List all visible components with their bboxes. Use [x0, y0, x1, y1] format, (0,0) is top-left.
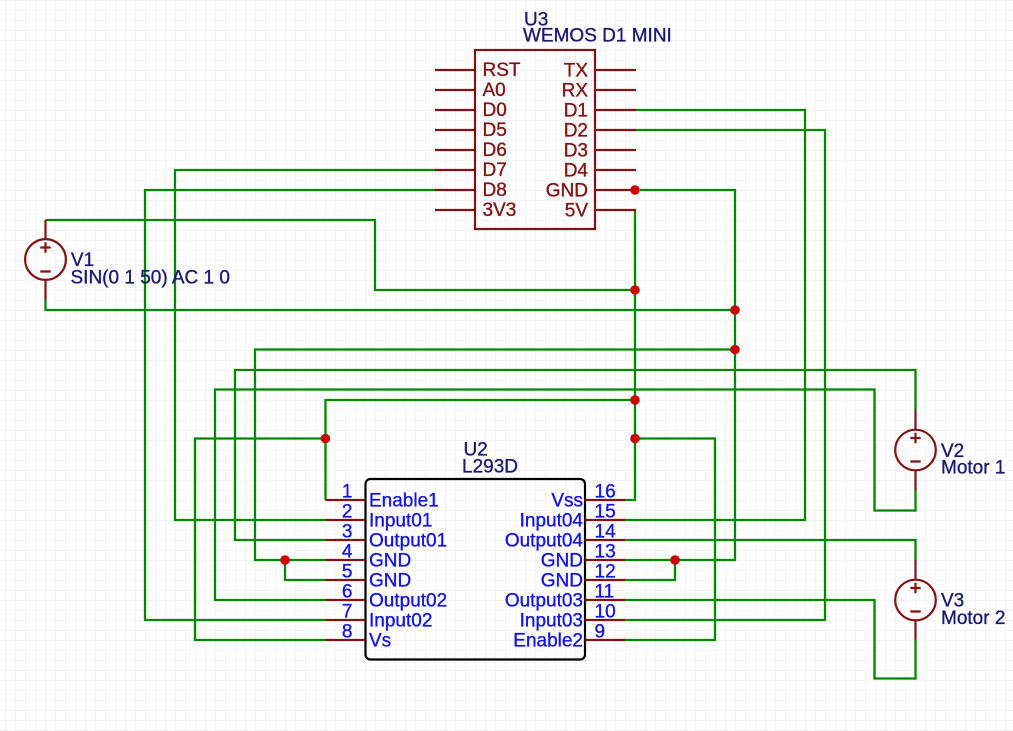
svg-text:SIN(0 1 50) AC 1 0: SIN(0 1 50) AC 1 0	[71, 268, 230, 289]
svg-text:GND: GND	[546, 181, 588, 202]
svg-text:Output02: Output02	[369, 591, 447, 612]
svg-text:13: 13	[595, 542, 616, 563]
svg-text:15: 15	[595, 502, 616, 523]
svg-text:D2: D2	[564, 121, 588, 142]
svg-text:11: 11	[595, 582, 615, 603]
svg-text:D5: D5	[483, 120, 507, 141]
svg-text:RST: RST	[483, 60, 521, 81]
svg-text:GND: GND	[369, 571, 411, 592]
svg-text:L293D: L293D	[462, 457, 518, 478]
svg-text:12: 12	[595, 562, 616, 583]
svg-text:3: 3	[342, 522, 353, 543]
svg-text:Motor 2: Motor 2	[941, 608, 1005, 629]
svg-text:RX: RX	[562, 81, 589, 102]
svg-text:6: 6	[342, 582, 353, 603]
svg-text:14: 14	[595, 522, 617, 543]
svg-text:16: 16	[595, 482, 616, 503]
svg-text:Enable1: Enable1	[369, 491, 439, 512]
svg-text:D8: D8	[483, 180, 507, 201]
svg-text:Motor 1: Motor 1	[941, 458, 1005, 479]
svg-text:WEMOS D1 MINI: WEMOS D1 MINI	[523, 26, 672, 47]
svg-text:D1: D1	[564, 101, 588, 122]
svg-text:D0: D0	[483, 100, 507, 121]
svg-text:Enable2: Enable2	[513, 631, 583, 652]
svg-text:D7: D7	[483, 160, 507, 181]
svg-text:TX: TX	[564, 61, 589, 82]
svg-text:A0: A0	[483, 80, 506, 101]
svg-text:9: 9	[595, 622, 606, 643]
svg-text:Output01: Output01	[369, 531, 447, 552]
svg-text:D4: D4	[564, 161, 589, 182]
svg-text:4: 4	[342, 542, 353, 563]
svg-text:D3: D3	[564, 141, 588, 162]
svg-text:10: 10	[595, 602, 616, 623]
svg-text:8: 8	[342, 622, 353, 643]
svg-text:3V3: 3V3	[483, 200, 517, 221]
svg-text:2: 2	[342, 502, 353, 523]
svg-text:GND: GND	[541, 571, 583, 592]
svg-text:Input02: Input02	[369, 611, 432, 632]
svg-text:GND: GND	[369, 551, 411, 572]
svg-text:Output03: Output03	[505, 591, 583, 612]
svg-text:Input03: Input03	[520, 611, 583, 632]
svg-text:D6: D6	[483, 140, 507, 161]
svg-text:Vs: Vs	[369, 631, 391, 652]
svg-text:5: 5	[342, 562, 353, 583]
svg-text:Input01: Input01	[369, 511, 432, 532]
svg-text:Vss: Vss	[551, 491, 583, 512]
svg-text:Output04: Output04	[505, 531, 584, 552]
svg-text:Input04: Input04	[520, 511, 584, 532]
svg-text:7: 7	[342, 602, 353, 623]
svg-text:GND: GND	[541, 551, 583, 572]
svg-text:1: 1	[342, 482, 353, 503]
svg-text:5V: 5V	[565, 201, 589, 222]
